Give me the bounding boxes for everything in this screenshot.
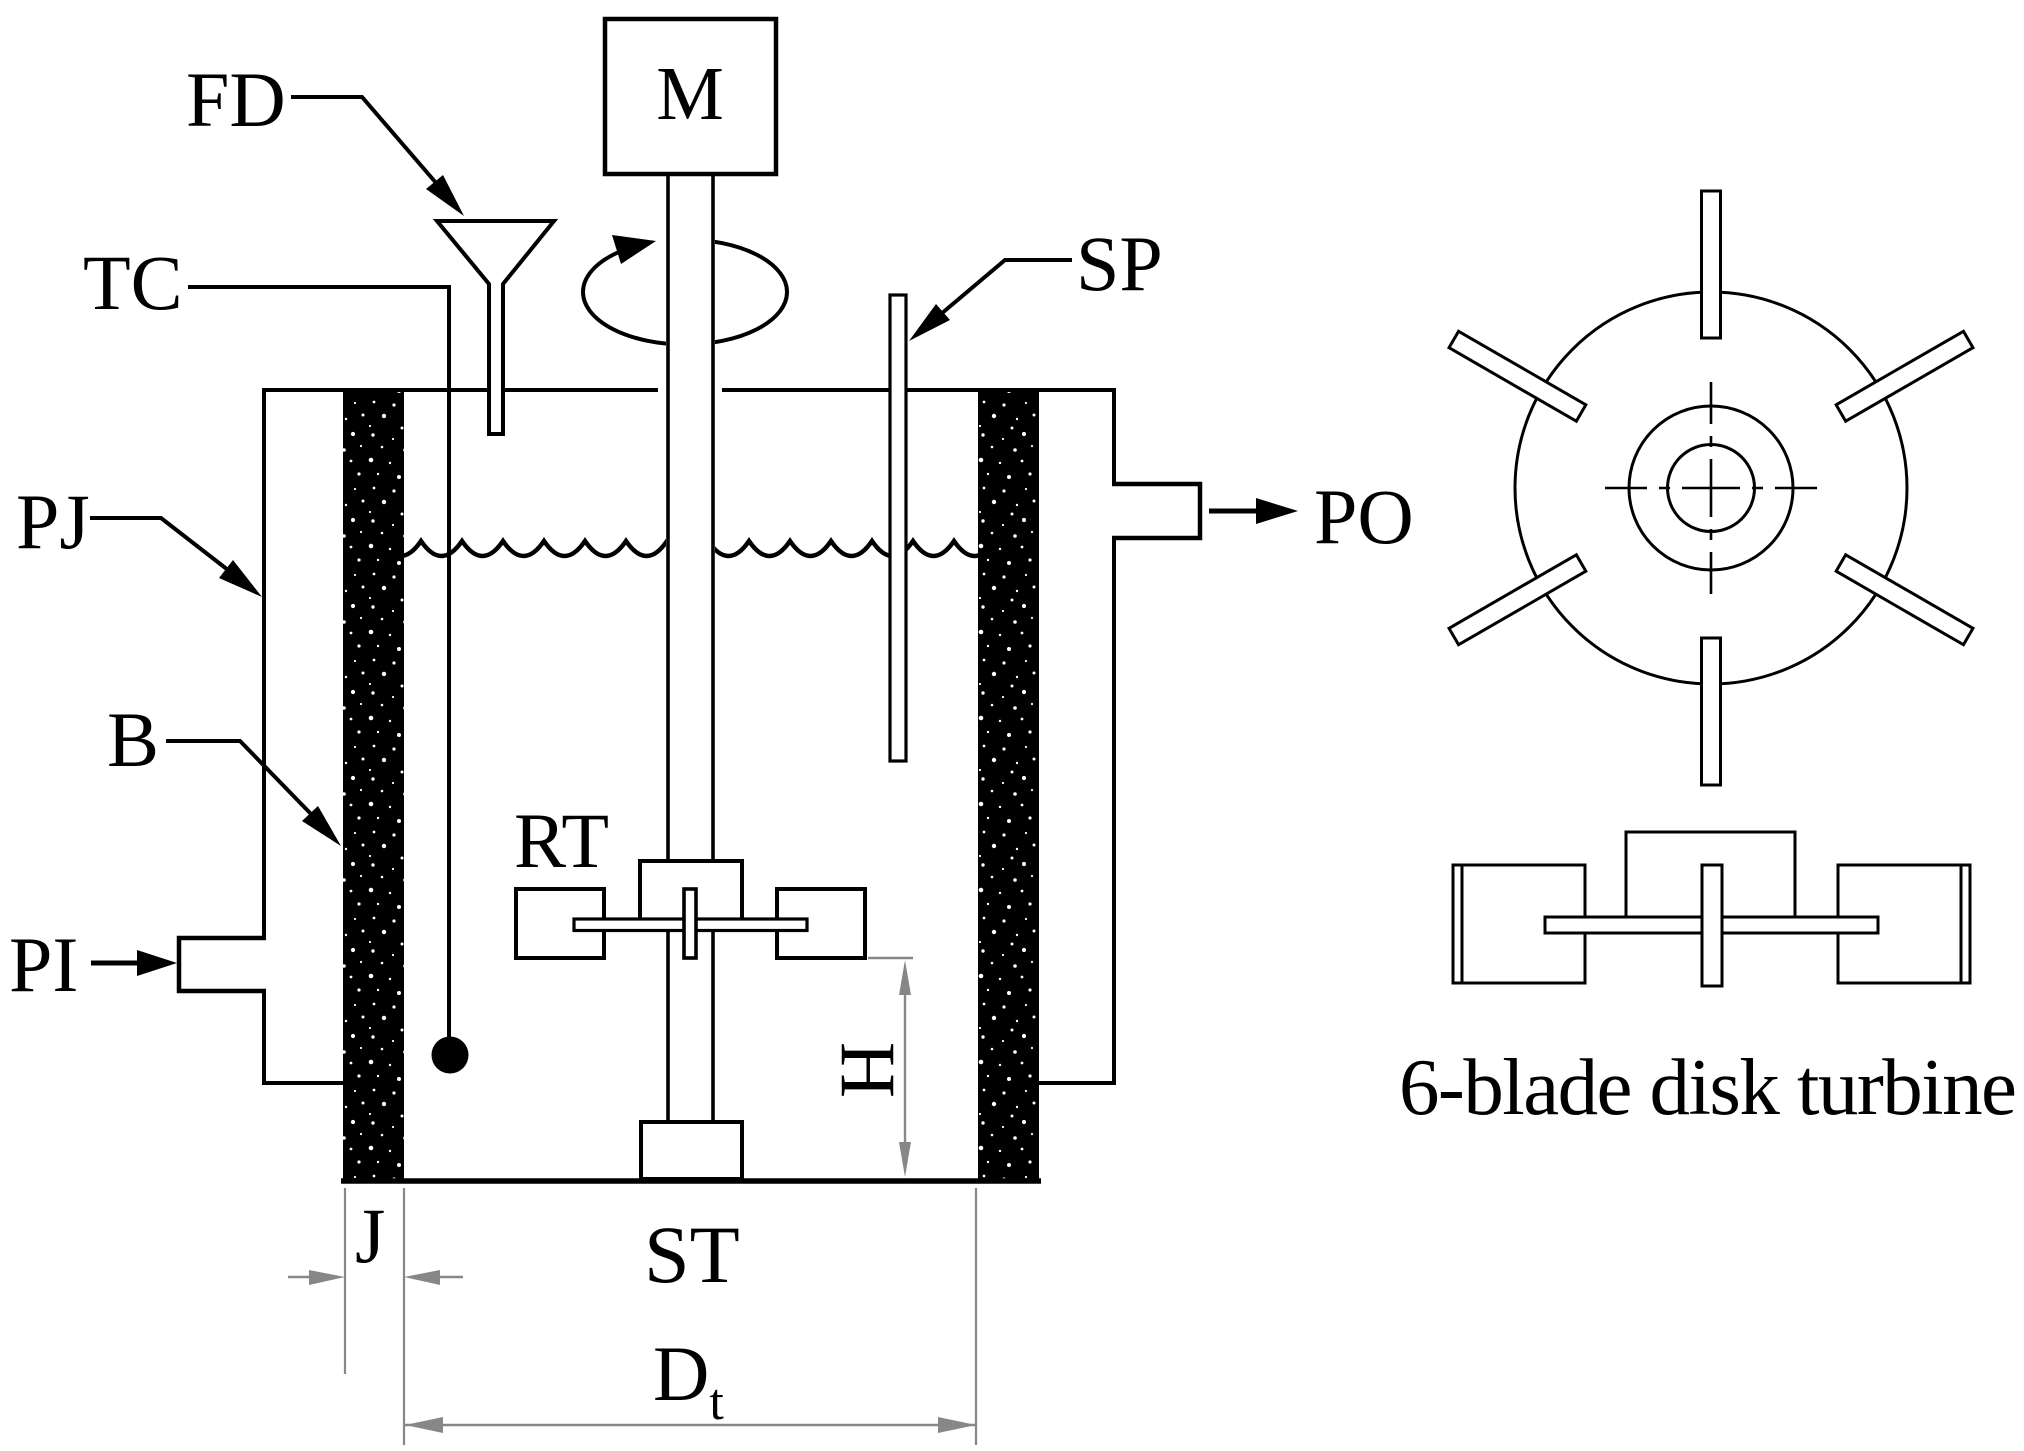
turbine RT hub [640, 861, 742, 921]
jacket PJ left wall [262, 388, 345, 1085]
thermocouple TC wire [188, 285, 449, 1038]
dimension J arrows [288, 1270, 463, 1285]
side view: left blade [1453, 865, 1585, 983]
outlet pipe PO [1112, 484, 1200, 538]
shaft foot bearing [641, 1122, 742, 1179]
svg-text:B: B [107, 696, 159, 783]
baffle B right [978, 392, 1039, 1181]
top view: hub circle [1629, 406, 1793, 570]
side view: disk bar [1545, 917, 1878, 933]
svg-text:J: J [355, 1192, 385, 1279]
svg-text:SP: SP [1076, 220, 1163, 307]
leader B [166, 741, 341, 846]
arrow PI [91, 950, 177, 976]
tank top line [262, 388, 1114, 392]
side view: left blade inner line [1461, 865, 1464, 983]
baffle B left [343, 392, 404, 1181]
leader SP [909, 260, 1072, 341]
svg-text:PO: PO [1314, 473, 1414, 560]
side view: disk edge [1702, 865, 1722, 986]
funnel FD [437, 221, 554, 434]
turbine RT disk bar [574, 919, 807, 931]
dimension Dt line [405, 1417, 976, 1433]
svg-text:RT: RT [514, 797, 609, 884]
top view: shaft circle [1668, 445, 1755, 532]
arrow PO [1209, 498, 1298, 524]
water surface wavy line [380, 541, 995, 556]
turbine RT disk edge [684, 889, 696, 958]
sample tube SP [890, 295, 906, 761]
inlet pipe PI [179, 938, 266, 991]
svg-text:ST: ST [644, 1209, 740, 1300]
shaft [666, 174, 715, 1122]
motor M box [605, 19, 776, 174]
svg-text:PJ: PJ [16, 478, 90, 565]
side view: right blade [1838, 865, 1970, 983]
svg-text:H: H [825, 1042, 912, 1098]
turbine RT left blade [516, 889, 604, 958]
thermocouple ball [432, 1037, 469, 1074]
dimension J and Dt extension lines [345, 1188, 976, 1445]
side view: right blade inner line [1960, 865, 1963, 983]
top view: centerline vertical [1710, 382, 1713, 594]
top view: disk circle [1515, 292, 1907, 684]
leader PJ [90, 518, 262, 597]
top view: 6 blades [1449, 191, 1973, 785]
svg-text:FD: FD [186, 56, 286, 143]
tank bottom line [341, 1178, 1041, 1184]
svg-text:M: M [656, 52, 724, 136]
svg-text:6-blade disk turbine: 6-blade disk turbine [1399, 1042, 2017, 1132]
top view: centerline horizontal [1605, 487, 1817, 490]
turbine RT right blade [777, 889, 865, 958]
dimension H [868, 958, 913, 1150]
svg-text:PI: PI [9, 921, 78, 1008]
rotation arrow ellipse [583, 228, 787, 345]
jacket PJ right wall [1037, 388, 1116, 1085]
side view: hub [1626, 832, 1795, 925]
svg-text:TC: TC [83, 239, 183, 326]
leader FD [291, 97, 464, 216]
